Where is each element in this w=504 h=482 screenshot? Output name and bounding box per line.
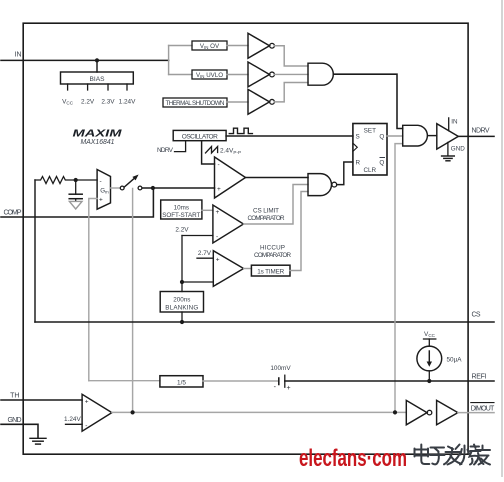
svg-text:BIAS: BIAS bbox=[90, 76, 106, 83]
block OSCILLATOR bbox=[173, 130, 226, 140]
svg-text:elecfans·com: elecfans·com bbox=[299, 445, 407, 472]
svg-text:NDRV: NDRV bbox=[472, 128, 490, 135]
svg-text:VIN UVLO: VIN UVLO bbox=[196, 72, 223, 79]
svg-text:1.24V: 1.24V bbox=[119, 99, 136, 106]
pin CS wire bbox=[35, 321, 494, 323]
svg-text:GND: GND bbox=[451, 145, 465, 152]
char 子 bbox=[430, 448, 445, 465]
node junction hiccup tap bbox=[180, 280, 184, 284]
wire 1.24V to TH comparator - input bbox=[66, 423, 83, 425]
wire hiccup output to 1s timer bbox=[244, 268, 252, 270]
node junction dim/AND A2 bbox=[393, 410, 397, 414]
svg-text:Gm: Gm bbox=[100, 188, 109, 195]
svg-text:2.2V: 2.2V bbox=[175, 226, 189, 233]
svg-text:CLR: CLR bbox=[363, 167, 376, 174]
comparator U7 HICCUP bbox=[213, 251, 243, 287]
wire to VIN OV box bbox=[169, 45, 192, 47]
pin COMP wire bbox=[1, 188, 153, 217]
pin DIMOUT label with overline bbox=[471, 402, 494, 404]
svg-text:+: + bbox=[216, 209, 220, 216]
svg-text:50µA: 50µA bbox=[447, 357, 463, 364]
wire V/5 feedback rail bbox=[89, 380, 160, 382]
resistor R1 (COMP network) bbox=[35, 177, 97, 184]
svg-text:Q: Q bbox=[379, 134, 384, 141]
op-amp Gm (transconductance amplifier) bbox=[97, 170, 110, 210]
svg-text:+: + bbox=[99, 197, 103, 204]
pin TH wire bbox=[1, 399, 82, 401]
inverter U4 (thermal) bbox=[248, 89, 270, 114]
wire UVLO box to inverter U3 bbox=[227, 74, 248, 76]
svg-text:MAX16841: MAX16841 bbox=[81, 139, 115, 146]
clock waveform symbol bbox=[229, 128, 252, 133]
svg-text:2.7V: 2.7V bbox=[198, 250, 212, 257]
driver IN stub bbox=[448, 118, 450, 131]
node junction blanking/CS bbox=[180, 320, 184, 324]
wire V/5 to 100mV battery bbox=[203, 380, 279, 382]
wire TH comparator output rail to DIMOUT buffers bbox=[112, 411, 406, 413]
wire OV box to inverter U2 bbox=[227, 45, 248, 47]
wire PWM comparator output to NAND N1 input 1 bbox=[246, 177, 309, 179]
block VIN UVLO bbox=[192, 70, 227, 79]
svg-text:+: + bbox=[217, 186, 221, 193]
wire latch Q to AND A2 input 2 bbox=[387, 135, 403, 137]
wire 2.2V node down to blanking bbox=[181, 236, 183, 292]
wire 2.2V to CS limit - input bbox=[182, 235, 213, 237]
svg-text:10ms: 10ms bbox=[174, 204, 189, 211]
ground symbol (driver) bbox=[442, 155, 455, 157]
svg-text:OSCILLATOR: OSCILLATOR bbox=[182, 134, 218, 141]
AND gate A1 (3-input) bbox=[308, 63, 333, 85]
inverter U11 (DIMOUT) bbox=[406, 400, 427, 424]
switch S1 arm with arrow bbox=[124, 178, 134, 187]
wire IN branch vertical to OV/UVLO bbox=[168, 46, 170, 75]
pin IN wire bbox=[1, 59, 169, 61]
wire switch control from TH comparator (vertical) bbox=[132, 189, 134, 413]
svg-text:-: - bbox=[85, 422, 87, 429]
watermark chinese characters bbox=[415, 445, 491, 465]
battery 100mV offset bbox=[278, 378, 280, 385]
BIAS output stub VCC bbox=[67, 84, 69, 90]
PWM comparator U5 bbox=[215, 157, 246, 198]
wire current source to REFI rail bbox=[428, 371, 430, 381]
comparator U10 TH (dim) bbox=[82, 394, 112, 431]
svg-text:200ns: 200ns bbox=[173, 296, 190, 303]
svg-text:DIMOUT: DIMOUT bbox=[471, 405, 495, 412]
wire hiccup - input from 2.2V rail bbox=[182, 281, 213, 283]
svg-text:MAXIM: MAXIM bbox=[73, 127, 122, 139]
signal ground arrow under C1 bbox=[69, 201, 82, 209]
svg-text:COMPARATOR: COMPARATOR bbox=[248, 215, 285, 222]
current source I1 bbox=[417, 346, 442, 371]
svg-text:-: - bbox=[218, 161, 220, 168]
wire to VIN UVLO box bbox=[169, 74, 192, 76]
switch S1 contact left bbox=[120, 186, 124, 190]
node junction R1/C1 bbox=[74, 178, 78, 182]
latch Qbar overline bbox=[380, 157, 385, 159]
svg-text:THERMAL SHUTDOWN: THERMAL SHUTDOWN bbox=[166, 100, 225, 107]
char 电 bbox=[415, 445, 430, 465]
svg-text:+: + bbox=[85, 399, 89, 406]
sawtooth ramp symbol bbox=[206, 147, 218, 154]
svg-text:CS LIMIT: CS LIMIT bbox=[253, 207, 279, 214]
driver GND stub bbox=[447, 142, 449, 155]
block THERMAL SHUTDOWN bbox=[163, 98, 227, 107]
BIAS output stub 2.2V bbox=[87, 84, 89, 90]
wire Gm + input down-left (to V/5) bbox=[89, 199, 97, 381]
ground symbol (GND pin) bbox=[30, 437, 46, 439]
pin DIMOUT wire bbox=[458, 412, 494, 414]
wire AND A2 output to driver bbox=[428, 135, 436, 137]
wire switch output to PWM + input bbox=[142, 187, 214, 189]
wire THERMAL box to inverter U4 bbox=[227, 101, 248, 103]
svg-text:+: + bbox=[286, 385, 290, 392]
IC boundary box bbox=[23, 23, 468, 454]
svg-text:BLANKING: BLANKING bbox=[165, 304, 198, 311]
capacitor C1 bbox=[75, 180, 77, 194]
wire timer output to NAND N1 input 3 bbox=[290, 192, 308, 271]
svg-text:S: S bbox=[356, 134, 360, 141]
AND gate A2 (3-input, driver enable) bbox=[403, 125, 428, 146]
pin NDRV wire bbox=[458, 135, 494, 137]
pin GND wire bbox=[1, 424, 38, 438]
svg-text:1/5: 1/5 bbox=[177, 379, 186, 386]
svg-text:REFI: REFI bbox=[472, 373, 487, 380]
wire NAND N1 output to latch R input bbox=[337, 162, 353, 185]
block 10ms SOFT-START bbox=[161, 200, 202, 219]
svg-text:VIN OV: VIN OV bbox=[200, 43, 220, 50]
block V/5 divider bbox=[160, 376, 203, 387]
wire inverter U4 to AND A1 bbox=[274, 83, 308, 102]
inverter U3 (VIN UVLO) bbox=[248, 62, 270, 87]
svg-text:GND: GND bbox=[8, 417, 22, 424]
svg-text:-: - bbox=[100, 178, 102, 185]
buffer U12 (DIMOUT) bbox=[437, 400, 458, 424]
wire R1 left leg down to CS rail bbox=[34, 180, 36, 322]
node junction switch control bbox=[131, 410, 135, 414]
char 发 bbox=[444, 445, 462, 465]
BIAS output stub 2.3V bbox=[107, 84, 109, 90]
svg-text:IN: IN bbox=[15, 52, 22, 59]
block BIAS bbox=[61, 72, 134, 84]
svg-text:IN: IN bbox=[451, 118, 458, 125]
svg-text:-: - bbox=[216, 233, 218, 240]
svg-text:1s TIMER: 1s TIMER bbox=[257, 269, 284, 276]
block VIN OV bbox=[192, 41, 227, 50]
NAND gate N1 (3-input) bbox=[308, 174, 331, 196]
latch clock edge marker bbox=[353, 143, 357, 151]
svg-text:NDRV: NDRV bbox=[157, 147, 174, 154]
node junction COMP / switch / PWM+ bbox=[151, 186, 155, 190]
block 1s TIMER bbox=[251, 265, 290, 276]
svg-text:HICCUP: HICCUP bbox=[260, 244, 285, 251]
wire IN node to BIAS bbox=[96, 60, 98, 72]
svg-text:CS: CS bbox=[472, 311, 481, 318]
svg-text:SET: SET bbox=[364, 128, 376, 135]
svg-text:-: - bbox=[216, 280, 218, 287]
inverter U2 (VIN OV) bbox=[248, 33, 270, 58]
driver buffer U9 bbox=[437, 124, 459, 149]
svg-text:Q: Q bbox=[379, 160, 384, 167]
char 烧 bbox=[460, 445, 484, 465]
wire oscillator output to latch S input bbox=[226, 135, 353, 137]
wire inverter U2 to AND A1 bbox=[274, 46, 308, 66]
char 友 bbox=[474, 446, 490, 465]
node junction on IN line (bias tap) bbox=[95, 58, 99, 62]
SR latch U8 bbox=[353, 124, 387, 176]
VCC supply bar bbox=[424, 338, 436, 340]
svg-text:1.24V: 1.24V bbox=[64, 416, 81, 423]
wire 2.7V to hiccup + input bbox=[197, 257, 213, 259]
wire AND A1 output to AND A2 top input bbox=[333, 74, 402, 128]
comparator U6 CS LIMIT bbox=[213, 205, 244, 243]
svg-text:R: R bbox=[356, 160, 361, 167]
svg-text:COMP: COMP bbox=[4, 209, 22, 216]
node junction current source/REFI bbox=[427, 379, 431, 383]
wire inverter U3 to AND A1 bbox=[274, 73, 308, 75]
svg-text:TH: TH bbox=[10, 393, 19, 400]
svg-text:+: + bbox=[216, 257, 220, 264]
pin REFI wire bbox=[285, 380, 494, 382]
svg-text:100mV: 100mV bbox=[270, 365, 291, 372]
wire NDRV to oscillator bbox=[175, 141, 186, 152]
svg-text:2.3V: 2.3V bbox=[101, 99, 115, 106]
svg-text:2.2V: 2.2V bbox=[81, 99, 95, 106]
wire blanking to CS rail bbox=[181, 312, 183, 322]
wire CS limit output to NAND N1 input 2 bbox=[244, 185, 309, 225]
outer page frame right edge bbox=[501, 0, 503, 477]
wire oscillator ramp to PWM comparator bbox=[202, 141, 215, 164]
wire Gm output to switch bbox=[111, 187, 120, 189]
svg-text:SOFT-START: SOFT-START bbox=[162, 212, 200, 219]
BIAS output stub 1.24V bbox=[126, 84, 128, 90]
wire dim signal vertical (AND A2 input 3 to DIMOUT rail) bbox=[395, 144, 403, 413]
svg-text:COMPARATOR: COMPARATOR bbox=[254, 252, 291, 259]
switch S1 contact right bbox=[138, 186, 142, 190]
wire soft-start to CS limit comparator + bbox=[202, 209, 213, 211]
block 200ns BLANKING bbox=[160, 292, 203, 313]
